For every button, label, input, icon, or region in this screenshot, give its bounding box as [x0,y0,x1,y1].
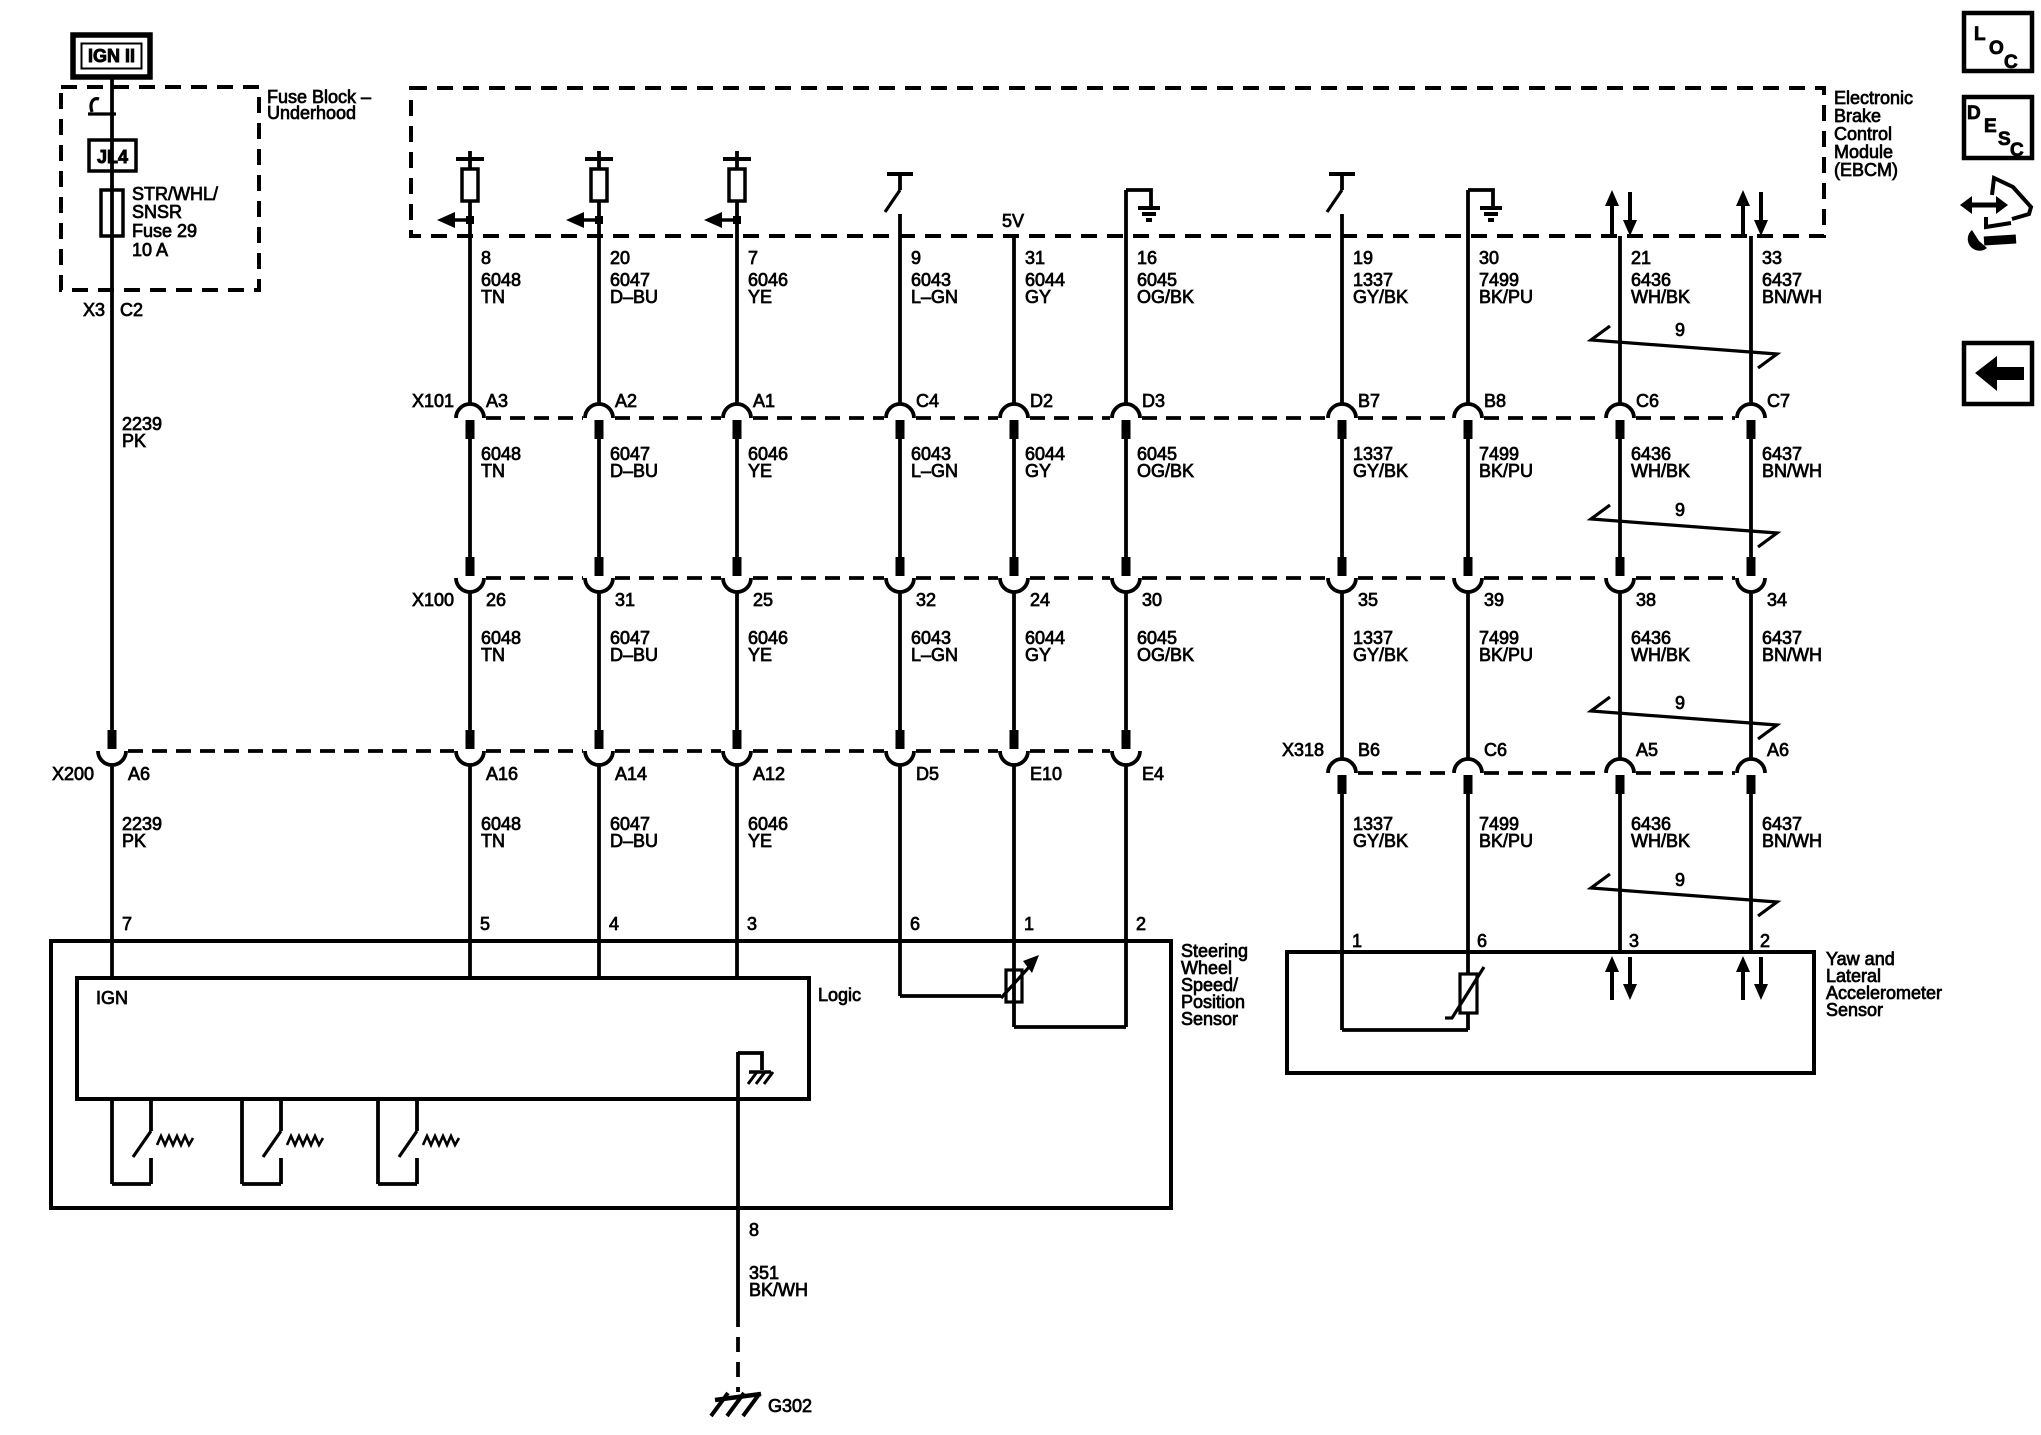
svg-text:B6: B6 [1358,740,1380,760]
EBCM internal ground col 30 [1468,190,1502,236]
wire circuit labels below EBCM [481,270,1822,307]
svg-text:C: C [2010,140,2024,161]
svg-text:2: 2 [1136,914,1146,934]
svg-text:4: 4 [609,914,619,934]
svg-text:X200: X200 [52,764,94,784]
wire circuit labels below X318 [1353,814,1822,851]
EBCM internal resistor (driver) col 8 [437,151,484,236]
fuse block label [267,87,371,123]
svg-text:A14: A14 [615,764,647,784]
wire label 2239 PK upper [122,414,162,451]
svg-text:TN: TN [481,287,505,307]
svg-text:GY: GY [1025,645,1051,665]
svg-text:YE: YE [748,287,772,307]
svg-text:8: 8 [481,248,491,268]
EBCM internal ground col 16 [1126,190,1160,236]
wire pin8 inside box [736,1099,740,1208]
svg-text:O: O [1989,38,2004,59]
svg-text:A6: A6 [128,764,150,784]
svg-text:8: 8 [749,1220,759,1240]
svg-text:5V: 5V [1002,211,1024,231]
svg-text:OG/BK: OG/BK [1137,287,1194,307]
svg-text:Sensor: Sensor [1181,1009,1238,1029]
svg-text:Fuse 29: Fuse 29 [132,221,197,241]
svg-text:A3: A3 [486,391,508,411]
svg-text:L–GN: L–GN [911,461,958,481]
svg-text:3: 3 [747,914,757,934]
twisted-pair crossing 9 #3 [1591,693,1777,739]
LOC icon [1964,13,2032,73]
EBCM serial data arrows col 33 [1736,190,1768,236]
svg-text:OG/BK: OG/BK [1137,645,1194,665]
wire circuit labels below X100 [481,628,1822,665]
svg-text:BN/WH: BN/WH [1762,831,1822,851]
svg-text:24: 24 [1030,590,1050,610]
twisted-pair crossing 9 #4 [1591,870,1777,916]
svg-text:E: E [1984,116,1997,137]
wire 351 BK/WH [738,1208,808,1327]
wire circuit labels below X200 [122,814,788,851]
connector row X100 [456,557,1765,592]
svg-text:B8: B8 [1484,391,1506,411]
svg-text:WH/BK: WH/BK [1631,461,1690,481]
svg-text:STR/WHL/: STR/WHL/ [132,184,218,204]
svg-text:JL4: JL4 [97,147,128,167]
svg-text:20: 20 [610,248,630,268]
svg-text:25: 25 [753,590,773,610]
svg-text:D3: D3 [1142,391,1165,411]
wire IGN II to fuse block [110,77,114,190]
svg-text:BN/WH: BN/WH [1762,645,1822,665]
twisted-pair crossing 9 #2 [1591,500,1777,547]
svg-text:Brake: Brake [1834,106,1881,126]
svg-text:39: 39 [1484,590,1504,610]
diagnostic jump icon (arrow, outline, wrench) [1960,178,2031,251]
EBCM internal switch col 19 [1327,174,1355,236]
svg-text:6: 6 [910,914,920,934]
svg-text:30: 30 [1142,590,1162,610]
svg-text:9: 9 [1675,693,1685,713]
EBCM internal resistor (driver) col 20 [566,151,613,236]
svg-text:WH/BK: WH/BK [1631,287,1690,307]
pin 8 label [749,1220,759,1240]
svg-text:16: 16 [1137,248,1157,268]
connector X3 C2 labels [83,300,143,320]
wire pin6 to potentiometer wiper [900,941,1001,996]
svg-text:26: 26 [486,590,506,610]
EBCM internal resistor (driver) col 7 [704,151,751,236]
yaw box pin numbers [1352,931,1770,951]
svg-text:X101: X101 [412,391,454,411]
steering box pin numbers [122,914,1146,934]
logic internal ground [738,1052,773,1099]
svg-text:X318: X318 [1282,740,1324,760]
EBCM label [1834,88,1913,180]
svg-text:21: 21 [1631,248,1651,268]
svg-text:D–BU: D–BU [610,461,658,481]
fuse 29 symbol [101,190,123,237]
svg-text:IGN II: IGN II [88,46,135,66]
svg-text:L: L [1974,24,1986,45]
svg-text:9: 9 [911,248,921,268]
logic box [77,978,809,1099]
svg-text:PK: PK [122,831,146,851]
svg-text:9: 9 [1675,500,1685,520]
svg-text:7: 7 [748,248,758,268]
wires X100 to X200 (left columns) [470,592,1126,730]
svg-text:Underhood: Underhood [267,103,356,123]
svg-text:WH/BK: WH/BK [1631,831,1690,851]
svg-text:1: 1 [1024,914,1034,934]
logic label [818,985,861,1005]
wire 2239 PK fuse to X200 [110,237,114,731]
wires EBCM to X101 [470,236,1751,404]
svg-text:BN/WH: BN/WH [1762,287,1822,307]
svg-text:Module: Module [1834,142,1893,162]
svg-text:34: 34 [1767,590,1787,610]
wires X200 to steering sensor box [112,765,1126,941]
svg-text:C6: C6 [1636,391,1659,411]
X100 row labels [412,590,1787,610]
svg-text:BN/WH: BN/WH [1762,461,1822,481]
svg-text:A1: A1 [753,391,775,411]
yaw serial data arrows pin 2 [1736,956,1768,1000]
svg-text:D: D [1967,103,1981,124]
svg-text:5: 5 [480,914,490,934]
svg-text:1: 1 [1352,931,1362,951]
svg-text:19: 19 [1353,248,1373,268]
svg-text:BK/WH: BK/WH [749,1280,808,1300]
svg-text:S: S [1998,129,2011,150]
svg-text:C6: C6 [1484,740,1507,760]
svg-text:PK: PK [122,431,146,451]
svg-text:32: 32 [916,590,936,610]
svg-text:YE: YE [748,831,772,851]
wire circuit labels below X101 [481,444,1822,481]
svg-text:35: 35 [1358,590,1378,610]
svg-text:A16: A16 [486,764,518,784]
svg-text:D–BU: D–BU [610,287,658,307]
svg-text:9: 9 [1675,870,1685,890]
svg-text:C4: C4 [916,391,939,411]
fuse block - underhood dashed box [61,87,259,290]
yaw sensor label [1826,949,1942,1020]
svg-text:TN: TN [481,645,505,665]
yaw serial data arrows pin 3 [1605,956,1637,1000]
svg-text:Electronic: Electronic [1834,88,1913,108]
ground G302 [711,1393,812,1416]
svg-text:6: 6 [1477,931,1487,951]
wires X101 to X100 [470,439,1751,557]
svg-text:L–GN: L–GN [911,287,958,307]
EBCM dashed box [411,88,1824,236]
steering wheel speed/position sensor box [51,941,1171,1208]
svg-text:C: C [2004,52,2018,73]
svg-text:GY: GY [1025,287,1051,307]
svg-text:TN: TN [481,461,505,481]
svg-text:GY/BK: GY/BK [1353,461,1408,481]
svg-text:B7: B7 [1358,391,1380,411]
svg-text:D2: D2 [1030,391,1053,411]
twisted-pair crossing 9 #1 [1591,320,1777,368]
svg-text:E10: E10 [1030,764,1062,784]
svg-text:OG/BK: OG/BK [1137,461,1194,481]
DESC icon [1964,97,2032,161]
svg-text:YE: YE [748,461,772,481]
svg-text:C2: C2 [120,300,143,320]
svg-text:31: 31 [615,590,635,610]
svg-text:YE: YE [748,645,772,665]
wires into logic box [112,941,737,978]
dashed wire to G302 [736,1337,740,1392]
svg-text:D–BU: D–BU [610,831,658,851]
yaw wire pin1 internal [1342,952,1468,1030]
steering sensor label [1181,941,1248,1029]
svg-text:BK/PU: BK/PU [1479,461,1533,481]
IGN II power feed box [73,35,150,77]
svg-text:A5: A5 [1636,740,1658,760]
svg-text:A2: A2 [615,391,637,411]
connector row X101 [456,404,1765,439]
svg-text:D5: D5 [916,764,939,784]
svg-text:E4: E4 [1142,764,1164,784]
svg-text:Control: Control [1834,124,1892,144]
svg-text:GY/BK: GY/BK [1353,831,1408,851]
svg-text:TN: TN [481,831,505,851]
svg-text:GY/BK: GY/BK [1353,645,1408,665]
svg-text:7: 7 [122,914,132,934]
ignition switch contact [88,99,116,114]
svg-text:10 A: 10 A [132,240,168,260]
JL4 junction box [89,140,136,171]
speed sensor switch 2 [242,1099,323,1184]
X318 row labels [1282,740,1789,760]
wire pot bottom to pin 2 [1014,941,1126,1027]
EBCM internal switch col 9 [885,174,913,236]
EBCM pin numbers [481,248,1782,268]
connector row X200 [98,730,1140,765]
IGN label [96,988,128,1008]
EBCM serial data arrows col 21 [1605,190,1637,236]
wires X100 to X318 (right columns) [1342,592,1751,759]
svg-text:L–GN: L–GN [911,645,958,665]
svg-text:X3: X3 [83,300,105,320]
svg-text:38: 38 [1636,590,1656,610]
svg-text:2: 2 [1760,931,1770,951]
svg-text:Sensor: Sensor [1826,1000,1883,1020]
svg-text:G302: G302 [768,1396,812,1416]
svg-text:BK/PU: BK/PU [1479,287,1533,307]
svg-text:GY: GY [1025,461,1051,481]
potentiometer (steering position) [1001,941,1039,1027]
fuse 29 label [132,184,218,260]
svg-text:30: 30 [1479,248,1499,268]
speed sensor switch 1 [112,1099,193,1184]
X101 row labels [412,391,1790,411]
EBCM 5V reference label [1002,211,1024,231]
svg-text:33: 33 [1762,248,1782,268]
svg-text:WH/BK: WH/BK [1631,645,1690,665]
svg-text:IGN: IGN [96,988,128,1008]
svg-text:Logic: Logic [818,985,861,1005]
svg-text:(EBCM): (EBCM) [1834,160,1898,180]
back arrow icon [1964,343,2032,404]
svg-text:BK/PU: BK/PU [1479,831,1533,851]
yaw and lateral accelerometer sensor box [1287,952,1814,1073]
speed sensor switch 3 [378,1099,459,1184]
svg-text:GY/BK: GY/BK [1353,287,1408,307]
svg-text:31: 31 [1025,248,1045,268]
X200 row labels [52,764,1164,784]
svg-text:A12: A12 [753,764,785,784]
svg-text:D–BU: D–BU [610,645,658,665]
svg-text:C7: C7 [1767,391,1790,411]
thermistor (yaw sensor) [1445,952,1484,1030]
connector row X318 [1328,759,1765,794]
wires X318 to yaw sensor box [1342,794,1751,952]
svg-text:SNSR: SNSR [132,202,182,222]
svg-text:3: 3 [1629,931,1639,951]
svg-text:BK/PU: BK/PU [1479,645,1533,665]
svg-text:X100: X100 [412,590,454,610]
svg-text:A6: A6 [1767,740,1789,760]
svg-text:9: 9 [1675,320,1685,340]
